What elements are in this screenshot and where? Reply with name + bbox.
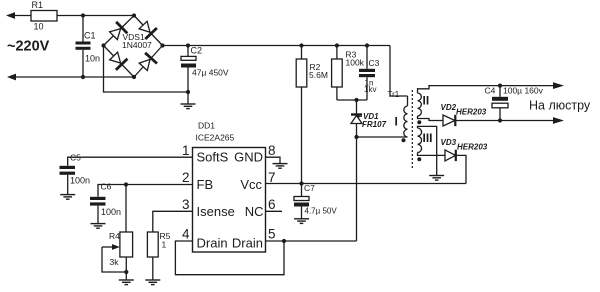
node bridge right vertex xyxy=(160,43,164,47)
wire Vcc net pin7 to VD3 xyxy=(266,183,467,185)
diode VDS1 top-right xyxy=(139,21,157,39)
svg-text:Vcc: Vcc xyxy=(240,177,262,192)
wire winding III top to ground xyxy=(418,126,437,175)
svg-text:GND: GND xyxy=(234,150,263,165)
node junction R2 top xyxy=(299,43,303,47)
node bridge top vertex xyxy=(132,13,136,17)
wire pin 3 Isense to R5 xyxy=(153,211,193,232)
svg-text:C2: C2 xyxy=(191,46,203,56)
node junction C2 top xyxy=(186,43,190,47)
transformer Tr1 core xyxy=(411,90,413,168)
capacitor C7 xyxy=(294,197,309,219)
wire winding II top to output xyxy=(418,86,555,93)
svg-text:Drain: Drain xyxy=(197,236,228,251)
wire R1 to bridge top vertex xyxy=(57,15,134,17)
svg-text:100n: 100n xyxy=(70,176,90,186)
svg-text:100µ 160v: 100µ 160v xyxy=(503,86,544,96)
svg-text:10n: 10n xyxy=(85,54,100,64)
resistor R2 xyxy=(296,46,307,88)
svg-text:R4: R4 xyxy=(109,231,120,241)
transformer Tr1 secondary winding II xyxy=(418,93,422,116)
svg-text:DD1: DD1 xyxy=(198,121,215,131)
svg-text:C7: C7 xyxy=(304,183,315,193)
ground under C6 xyxy=(91,224,106,229)
node junction Vcc / C7 xyxy=(299,181,303,185)
svg-text:C4: C4 xyxy=(485,86,496,96)
node junction minus net xyxy=(186,90,190,94)
capacitor C4 xyxy=(492,86,508,121)
svg-text:4: 4 xyxy=(182,227,190,242)
svg-text:10: 10 xyxy=(34,22,44,32)
wire FB junction down to R4 xyxy=(125,185,127,233)
resistor R5 xyxy=(147,232,158,280)
svg-text:1kv: 1kv xyxy=(364,85,376,94)
svg-text:C3: C3 xyxy=(369,58,380,68)
wire pin 4 drain loop xyxy=(175,241,284,275)
resistor R4 variable xyxy=(102,232,133,272)
wire drain net to primary bottom xyxy=(357,136,408,138)
svg-text:6: 6 xyxy=(268,197,276,212)
diode VDS1 bottom-right xyxy=(139,53,157,71)
wire AC bottom line with left arrow xyxy=(7,74,134,81)
label pointer VD1 xyxy=(356,115,363,118)
diode VDS1 bottom-left xyxy=(110,52,128,70)
svg-text:VD2: VD2 xyxy=(441,103,457,112)
op-amp/controller IC DD1 ICE2A265 body xyxy=(193,148,266,253)
svg-text:R1: R1 xyxy=(32,0,44,10)
capacitor C3 xyxy=(359,46,375,101)
wire R4 bottom to ground xyxy=(125,257,127,280)
svg-text:Isense: Isense xyxy=(197,204,235,219)
capacitor C6 xyxy=(90,197,106,224)
diode VD3 xyxy=(445,150,466,184)
diode VDS1 top-left xyxy=(110,22,128,40)
svg-text:HER203: HER203 xyxy=(457,143,488,152)
ground under R4 xyxy=(119,280,134,285)
node junction R4 wiper xyxy=(124,270,128,274)
svg-text:C5: C5 xyxy=(70,153,81,163)
svg-text:Tr1: Tr1 xyxy=(388,90,400,99)
node junction C4 top xyxy=(498,84,502,88)
svg-text:Drain: Drain xyxy=(232,236,263,251)
ground under C5 xyxy=(60,195,75,200)
wire pin 5 drain to vertical riser xyxy=(266,240,357,242)
resistor R1 xyxy=(31,11,57,22)
svg-text:1: 1 xyxy=(182,143,190,158)
wire rail to primary top xyxy=(390,46,408,97)
wire pin 1 SoftS to C5 xyxy=(68,157,193,166)
capacitor C1 xyxy=(76,16,91,78)
node bridge left vertex xyxy=(101,43,105,47)
node junction C1 top xyxy=(81,13,85,17)
svg-text:3k: 3k xyxy=(110,257,120,267)
svg-text:4.7µ 50V: 4.7µ 50V xyxy=(305,207,338,216)
transformer Tr1 secondary winding III xyxy=(418,128,422,153)
svg-text:SoftS: SoftS xyxy=(197,150,229,165)
resistor R3 xyxy=(332,46,343,101)
svg-text:VD3: VD3 xyxy=(441,138,457,147)
svg-text:NC: NC xyxy=(245,204,264,219)
node junction FB / R4 xyxy=(124,182,128,186)
wire pin 2 FB to C6 xyxy=(98,185,193,197)
svg-text:HER203: HER203 xyxy=(456,108,487,117)
wire drain net vertical to pin 5 xyxy=(356,137,358,241)
pin 6 NC stub xyxy=(266,210,283,212)
svg-text:C6: C6 xyxy=(101,182,112,192)
capacitor C2 xyxy=(181,46,196,93)
node phase dot winding II xyxy=(417,120,421,124)
svg-text:FB: FB xyxy=(197,177,214,192)
wire stub to ground under C2 xyxy=(187,92,189,104)
svg-text:C1: C1 xyxy=(84,31,96,41)
svg-text:2: 2 xyxy=(182,170,190,185)
svg-text:FR107: FR107 xyxy=(362,120,387,129)
diode VD2 xyxy=(443,115,554,126)
node bridge bottom vertex xyxy=(132,75,136,79)
ground pin 8 xyxy=(273,164,288,169)
output arrow bottom xyxy=(553,117,564,124)
svg-text:100k: 100k xyxy=(346,58,365,68)
capacitor C5 xyxy=(60,166,76,195)
svg-text:7: 7 xyxy=(268,170,276,185)
node phase dot primary I xyxy=(402,138,406,142)
ground under C7 xyxy=(294,219,309,224)
wire winding III bottom to VD3 xyxy=(418,153,446,156)
svg-text:III: III xyxy=(423,131,433,145)
wire DC minus from bridge left vertex to ground xyxy=(104,46,189,93)
svg-text:ICE2A265: ICE2A265 xyxy=(196,133,235,143)
node junction VD1 cathode xyxy=(354,98,358,102)
svg-text:1: 1 xyxy=(162,240,167,250)
svg-text:8: 8 xyxy=(268,143,276,158)
ground under C2 xyxy=(181,104,196,109)
ground under R5 xyxy=(145,280,160,285)
wire winding II bottom to VD2 xyxy=(418,116,444,121)
node junction R3 top xyxy=(335,43,339,47)
node junction C4 bottom xyxy=(498,118,502,122)
wire R2 bottom down to Vcc node xyxy=(301,87,303,197)
svg-text:100n: 100n xyxy=(101,207,121,217)
svg-text:47µ 450V: 47µ 450V xyxy=(192,68,229,78)
svg-text:5.6M: 5.6M xyxy=(309,70,328,80)
pin 8 GND wire to ground xyxy=(266,157,281,163)
bridge VDS1 diamond wires xyxy=(104,16,163,78)
node junction C3 top xyxy=(365,43,369,47)
transformer Tr1 primary winding I xyxy=(404,96,408,137)
svg-text:II: II xyxy=(423,94,430,108)
svg-text:5: 5 xyxy=(268,227,276,242)
node junction VD1 anode / drain net xyxy=(354,135,358,139)
node junction C1 bottom xyxy=(81,75,85,79)
wire clamp bottom R3 to C3 xyxy=(337,99,367,101)
svg-text:3: 3 xyxy=(182,197,190,212)
svg-text:~220V: ~220V xyxy=(7,39,50,55)
wire AC top line with left arrow xyxy=(6,12,31,19)
svg-text:1N4007: 1N4007 xyxy=(122,40,152,50)
output arrow top xyxy=(553,82,564,89)
diode VD1 xyxy=(351,100,362,137)
node junction pin5 drain xyxy=(282,239,286,243)
node phase dot winding III xyxy=(417,157,421,161)
ground winding III xyxy=(429,176,444,181)
svg-text:I: I xyxy=(395,115,398,129)
wire DC+ rail xyxy=(163,45,391,47)
svg-text:На люстру: На люстру xyxy=(529,99,591,113)
